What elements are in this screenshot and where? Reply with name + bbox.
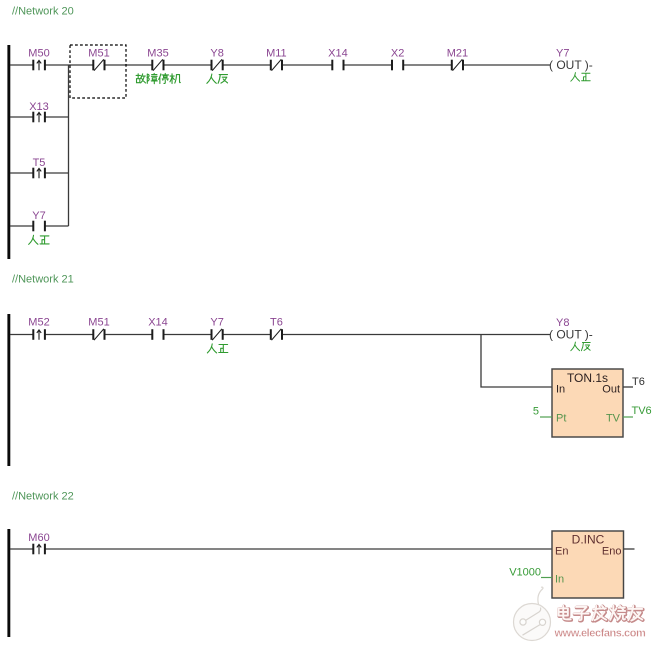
svg-text:M51: M51 <box>88 316 109 328</box>
svg-text:T6: T6 <box>270 316 283 328</box>
svg-text:Out: Out <box>602 383 620 395</box>
label guzhang tingji (fault stop) <box>136 73 180 83</box>
svg-text:Y7: Y7 <box>32 210 45 222</box>
svg-text:M21: M21 <box>447 48 468 60</box>
left power rail network 21 <box>7 314 10 466</box>
contact T6 (NC) <box>270 316 283 340</box>
contact M50 (positive edge) <box>28 48 49 71</box>
contact M51 (NC) <box>88 48 109 71</box>
wire rung3 y=549 <box>10 548 552 550</box>
label ruzheng under contact Y7 <box>29 235 49 244</box>
svg-text:M60: M60 <box>28 532 49 544</box>
label rufan under coil Y8 <box>571 342 590 351</box>
svg-text:Y8: Y8 <box>210 48 223 60</box>
branch wire to TON box <box>481 335 552 388</box>
svg-text:TV6: TV6 <box>632 405 652 417</box>
svg-text:M51: M51 <box>88 48 109 60</box>
contact T5 (positive edge) <box>33 157 46 179</box>
timer box TON.1s (T6) <box>552 369 623 437</box>
wire V1000 to In pin <box>541 577 552 579</box>
wire rung2 segments y=334.5 <box>10 334 550 336</box>
branch row X13 y=117 <box>10 116 69 118</box>
contact Y8 (NC) <box>210 48 223 71</box>
watermark logo circle <box>514 587 551 640</box>
contact X13 (positive edge) <box>29 101 49 123</box>
label rufan <box>207 74 228 83</box>
dashed selection box around M51 <box>70 45 126 98</box>
watermark text dianzifashaoyou <box>559 606 643 621</box>
svg-text:V1000: V1000 <box>509 566 541 578</box>
wire 5 to Pt pin <box>540 416 552 418</box>
svg-text:M52: M52 <box>28 316 49 328</box>
branch vertical wire x=68.5 <box>68 65 70 226</box>
left power rail network 20 <box>7 45 10 259</box>
label ruzheng under contact Y7 rung2 <box>207 344 227 353</box>
svg-text:X13: X13 <box>29 101 49 113</box>
contact M60 (positive edge) <box>28 532 49 554</box>
svg-text:X2: X2 <box>391 48 404 60</box>
svg-text:Eno: Eno <box>602 545 622 557</box>
coil Y7 (OUT) <box>549 48 593 72</box>
svg-text:En: En <box>555 545 568 557</box>
svg-text:M50: M50 <box>28 48 49 60</box>
left power rail network 22 <box>7 529 10 637</box>
svg-text:M11: M11 <box>266 48 287 60</box>
svg-text:X14: X14 <box>328 48 348 60</box>
svg-text:Pt: Pt <box>556 412 566 424</box>
svg-text:( OUT )-: ( OUT )- <box>549 58 593 72</box>
svg-text:D.INC: D.INC <box>572 533 605 547</box>
coil Y8 (OUT) <box>549 317 593 341</box>
contact M35 (NC) <box>147 48 168 71</box>
svg-text:( OUT )-: ( OUT )- <box>549 328 593 342</box>
contact X14 rung2 (NO) <box>148 316 168 339</box>
svg-text:In: In <box>555 573 564 585</box>
branch row T5 y=173 <box>10 172 69 174</box>
svg-text:Y7: Y7 <box>210 316 223 328</box>
contact M11 (NC) <box>266 48 287 71</box>
svg-text:5: 5 <box>533 406 539 418</box>
wire Eno output <box>624 548 635 550</box>
svg-text:X14: X14 <box>148 316 168 328</box>
svg-text:M35: M35 <box>147 48 168 60</box>
branch row Y7 y=226 <box>10 225 69 227</box>
contact Y7 rung2 (NC) <box>210 316 223 340</box>
svg-text:T5: T5 <box>33 157 46 169</box>
contact X2 (NO) <box>391 48 404 71</box>
contact Y7 (NO) <box>32 210 45 232</box>
svg-text:T6: T6 <box>632 376 645 388</box>
contact M21 (NC) <box>447 48 468 71</box>
svg-text://Network 21: //Network 21 <box>12 274 74 286</box>
contact M51 rung2 (NC) <box>88 316 109 340</box>
function box D.INC <box>552 531 624 598</box>
wire TV pin to TV6 <box>623 416 633 418</box>
wire Out pin to T6 <box>623 386 633 388</box>
wire rung1 segments y=65 <box>10 64 550 66</box>
svg-text:TV: TV <box>606 412 621 424</box>
svg-text:In: In <box>556 383 565 395</box>
svg-text://Network 20: //Network 20 <box>12 6 74 18</box>
svg-text:www.elecfans.com: www.elecfans.com <box>554 628 646 640</box>
svg-text://Network 22: //Network 22 <box>12 491 74 503</box>
contact M52 (positive edge) <box>28 316 49 339</box>
label ruzheng under coil Y7 <box>571 73 590 82</box>
contact X14 (NO) <box>328 48 348 71</box>
